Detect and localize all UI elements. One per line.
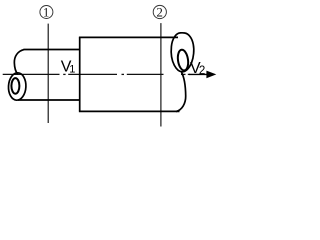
svg-text:1: 1	[69, 63, 75, 75]
svg-text:1: 1	[43, 4, 50, 19]
svg-text:2: 2	[156, 4, 163, 19]
